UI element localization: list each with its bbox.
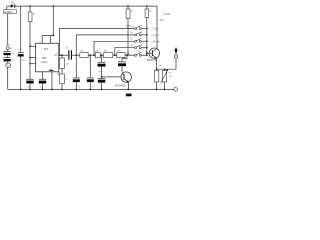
svg-text:C2: C2 [66, 48, 69, 50]
wire row1 [60, 29, 135, 56]
diode D1 [11, 3, 16, 8]
wire mains input left [7, 6, 11, 10]
svg-text:P1: P1 [169, 72, 172, 74]
diode D1 value box 1N4007 [4, 10, 17, 14]
node rail R1 [29, 5, 31, 7]
capacitor C7 [18, 49, 26, 62]
svg-text:R1: R1 [33, 14, 35, 16]
node chain row2 tap [75, 54, 77, 56]
wire [100, 54, 103, 56]
switch S3 [130, 38, 146, 42]
IC1 555 timer [36, 43, 59, 72]
svg-text:~ 30 min: ~ 30 min [151, 41, 161, 43]
switch S1 [130, 25, 146, 29]
capacitor C1b [4, 57, 14, 61]
svg-text:~ 2 min: ~ 2 min [151, 29, 159, 31]
preset P2 [58, 68, 68, 89]
svg-text:0: 0 [173, 84, 174, 86]
resistor R1 [28, 6, 35, 46]
resistor R6 [104, 51, 113, 58]
node chain row1 tap [59, 54, 61, 56]
svg-text:3: 3 [56, 53, 57, 55]
wire supply right [156, 6, 158, 49]
resistor R2 [126, 6, 133, 25]
transistor Q1 [116, 72, 132, 88]
wire left branch down [7, 14, 9, 45]
wire IC out pin [59, 54, 69, 56]
node row4 tap [114, 54, 116, 56]
wire chain [72, 54, 80, 56]
svg-text:555: 555 [42, 56, 47, 60]
wire bottom rail [8, 88, 174, 90]
resistor R10 [155, 65, 162, 90]
trimpot P1 [161, 69, 172, 89]
wire [113, 54, 117, 56]
svg-text:~ 15 s: ~ 15 s [158, 20, 165, 22]
switch S5 [135, 50, 146, 56]
svg-text:+: + [106, 64, 107, 66]
wire bus [146, 17, 148, 55]
node B [29, 45, 31, 47]
capacitor C7 line from rail [20, 6, 22, 52]
capacitor C10 mid [98, 55, 108, 78]
svg-text:U 30V: U 30V [164, 14, 171, 16]
node row3 tap [93, 54, 95, 56]
switch S2 [130, 32, 146, 36]
capacitor C1a [4, 51, 14, 55]
node C6 tap [126, 54, 128, 56]
resistor R5 [95, 51, 100, 58]
wire [88, 54, 95, 56]
node rail bus [146, 5, 148, 7]
svg-text:1k: 1k [159, 65, 162, 67]
node rail R2 [127, 5, 129, 7]
capacitor C11 low [98, 71, 106, 83]
legend labels right [151, 14, 171, 43]
svg-text:63V: 63V [22, 60, 26, 62]
svg-text:R3: R3 [149, 11, 151, 13]
capacitor C4 [26, 76, 35, 88]
svg-text:1: 1 [43, 70, 44, 72]
wire to bottom rail [7, 68, 9, 90]
fuse B2 [6, 44, 12, 50]
svg-text:2: 2 [37, 57, 38, 59]
capacitor C8 [73, 55, 82, 89]
svg-text:OUT: OUT [54, 55, 59, 57]
svg-text:10k: 10k [66, 64, 69, 66]
wire row3 [94, 41, 135, 55]
svg-text:~ 8 min: ~ 8 min [151, 35, 159, 37]
wire base Q1 [102, 76, 125, 78]
wire row4 [115, 48, 135, 56]
wire row2 [76, 35, 135, 55]
terminal output arrow [174, 47, 177, 69]
wire emitter branch [157, 68, 176, 70]
svg-text:25k: 25k [169, 76, 172, 78]
svg-text:1k: 1k [65, 78, 67, 80]
capacitor C6 coupling [118, 55, 127, 72]
node capA tap [89, 54, 91, 56]
svg-text:TIMER: TIMER [41, 62, 48, 64]
svg-text:10n: 10n [18, 49, 21, 51]
node capMid tap [101, 54, 103, 56]
svg-text:6: 6 [37, 64, 38, 66]
wire supply drop to IC top [42, 6, 53, 43]
svg-text:R2: R2 [131, 11, 133, 13]
wire IC bottom pins [43, 72, 52, 90]
wire selector common [127, 27, 129, 53]
svg-text:+: + [80, 76, 81, 78]
resistor R3 [145, 6, 152, 17]
node rail supply drop [52, 5, 54, 7]
wire node B to IC left pin [30, 45, 36, 47]
svg-text:B2: B2 [10, 48, 12, 50]
wire Q1 emitter [127, 82, 129, 90]
svg-text:+: + [94, 76, 95, 78]
svg-text:IC1: IC1 [44, 47, 49, 51]
switch S4 [130, 44, 146, 48]
wire top rail [15, 5, 157, 7]
wire C7 down [20, 57, 22, 90]
wire Q2 emitter [156, 58, 158, 71]
transistor Q2 [147, 48, 160, 62]
wire chain to switch [125, 54, 135, 56]
ground [126, 94, 132, 97]
selector common contact [127, 25, 129, 27]
wire left pin line down [29, 46, 31, 79]
resistor R7 [117, 51, 125, 58]
svg-text:40: 40 [11, 60, 13, 62]
resistor R4 [80, 51, 88, 58]
svg-text:40: 40 [11, 53, 13, 55]
wire between caps [7, 50, 9, 64]
svg-text:2µ: 2µ [92, 86, 94, 88]
svg-text:1N4007: 1N4007 [4, 11, 13, 14]
AC source La1 [6, 63, 11, 68]
svg-text:+: + [46, 76, 47, 78]
capacitor C5 [39, 76, 48, 88]
svg-text:+: + [34, 76, 35, 78]
wire IC pins 2 and 6 [30, 58, 36, 64]
svg-text:100µ: 100µ [99, 71, 103, 73]
svg-text:BC547B: BC547B [116, 83, 126, 87]
capacitor C9 [87, 55, 96, 89]
resistor R8 below chain [60, 54, 70, 68]
terminal bottom [174, 88, 178, 92]
svg-text:BC547B: BC547B [147, 58, 157, 62]
svg-text:2µ: 2µ [78, 86, 80, 88]
capacitor C2 series [66, 48, 72, 60]
